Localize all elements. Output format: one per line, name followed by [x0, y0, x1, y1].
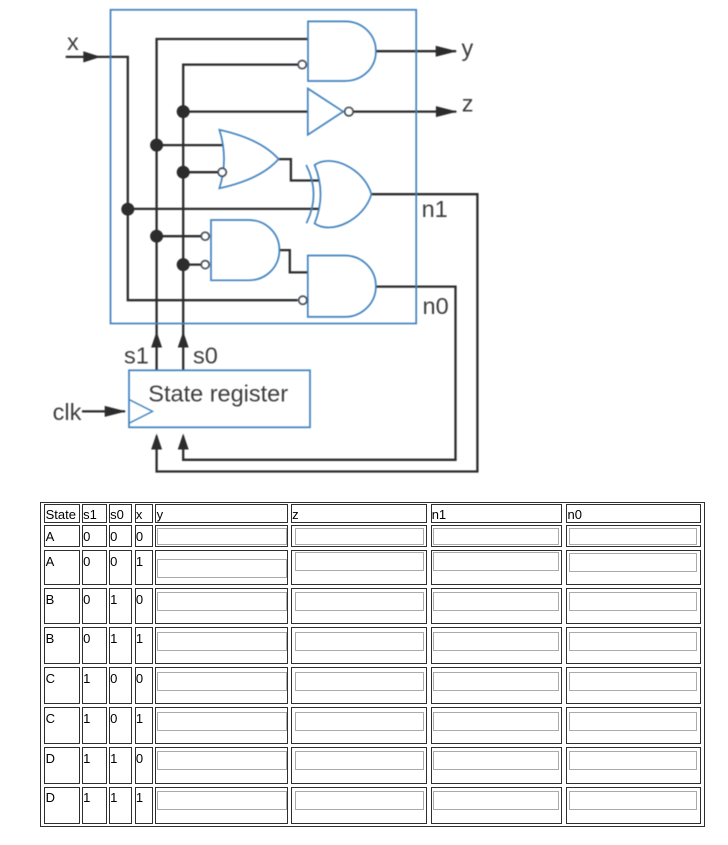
- arrowhead x input arrow: [83, 51, 101, 62]
- truth table row D s1=1 s0=1 x=0: [44, 747, 79, 784]
- XOR gate U4 (output n1) leading arc: [306, 165, 313, 223]
- state register block: [129, 370, 310, 427]
- truth table row A s1=0 s0=0 x=1: [44, 550, 79, 586]
- wire clk input wire: [82, 410, 125, 412]
- node s0 / NAND-lower junction (junction dot): [177, 258, 190, 271]
- wire NAND output elbow to AND(n0) upper input: [277, 250, 308, 272]
- wire s0 tap to NAND lower bubble: [183, 263, 201, 265]
- node s0 / OR-lower junction (junction dot): [177, 166, 190, 179]
- inverter U2 (output z): [308, 89, 343, 135]
- truth table row B s1=0 s0=1 x=1: [44, 627, 79, 664]
- node s0 / inverter junction (junction dot): [177, 105, 190, 118]
- wire x tap to XOR lower input: [128, 208, 321, 210]
- wire n0 net: AND output right, down, feedback left and up into register: [183, 287, 455, 460]
- svg-text:s1: s1: [124, 342, 149, 368]
- wire y output wire: [374, 50, 457, 52]
- wire z output wire: [353, 110, 456, 112]
- svg-text:s0: s0: [193, 342, 218, 368]
- wire s1 tap to OR upper input: [157, 144, 228, 146]
- truth table row C s1=1 s0=0 x=0: [44, 667, 79, 704]
- arrowhead s1 into combinational block: [151, 332, 162, 348]
- wire OR output elbow to XOR upper input: [276, 159, 321, 180]
- svg-text:n0: n0: [423, 293, 449, 319]
- node x / XOR-lower junction (junction dot): [121, 203, 134, 216]
- wire x input run: enters at left, down left column, bottom feed to n0 AND bubble: [66, 57, 298, 300]
- node s1 / OR-upper junction (junction dot): [150, 139, 163, 152]
- truth table row A s1=0 s0=0 x=0: [44, 525, 79, 547]
- arrowhead s0 into combinational block: [178, 332, 189, 348]
- inversion bubble U3 lower input: [218, 168, 226, 176]
- arrowhead clk input arrow: [105, 406, 127, 417]
- inversion bubble U2 output: [345, 107, 354, 116]
- wire n1 net: XOR output right, down, feedback left and up into register: [157, 194, 478, 471]
- truth table row C s1=1 s0=0 x=1: [44, 707, 79, 744]
- wire s0 tap to OR lower bubble: [183, 171, 218, 173]
- clock input triangle: [129, 400, 153, 424]
- svg-text:clk: clk: [53, 399, 82, 425]
- arrowhead n0 feedback into register: [178, 434, 189, 450]
- XOR gate U4 body: [315, 161, 372, 228]
- AND gate U1 (output y, lower input inverted): [308, 21, 376, 81]
- AND gate U6 (output n0, lower input inverted): [308, 256, 376, 317]
- truth table row B s1=0 s0=1 x=0: [44, 588, 79, 625]
- inversion bubble U6 lower input: [299, 296, 307, 304]
- inversion bubble U5 upper input: [201, 232, 209, 240]
- inversion bubble U1 lower input: [298, 61, 306, 69]
- arrowhead z output arrow: [436, 106, 458, 117]
- wire s1 tap to NAND upper bubble: [157, 235, 202, 237]
- inversion bubble U5 lower input: [201, 261, 209, 269]
- wire s1 vertical from register up, top feed to AND(y) upper input: [157, 39, 310, 370]
- truth table header row: [44, 504, 79, 523]
- truth table row D s1=1 s0=1 x=1: [44, 787, 79, 824]
- svg-text:n1: n1: [422, 196, 448, 222]
- svg-text:y: y: [462, 35, 474, 61]
- circuit schematic drawing: [0, 0, 728, 497]
- svg-text:State register: State register: [148, 381, 288, 407]
- svg-text:x: x: [67, 29, 79, 55]
- arrowhead n1 feedback into register: [151, 434, 162, 450]
- arrowhead y output arrow: [436, 46, 458, 57]
- truth table outer border: [40, 502, 705, 827]
- svg-text:z: z: [462, 91, 474, 117]
- OR gate U3 (lower input inverted): [219, 130, 278, 189]
- combinational logic boundary box: [111, 10, 417, 324]
- AND gate U5 (both inputs inverted): [211, 220, 279, 280]
- wire s0 tap to inverter input: [183, 110, 310, 112]
- node s1 / NAND-upper junction (junction dot): [150, 230, 163, 243]
- wire s0 vertical from register up, feed to AND(y) lower bubble: [183, 65, 298, 371]
